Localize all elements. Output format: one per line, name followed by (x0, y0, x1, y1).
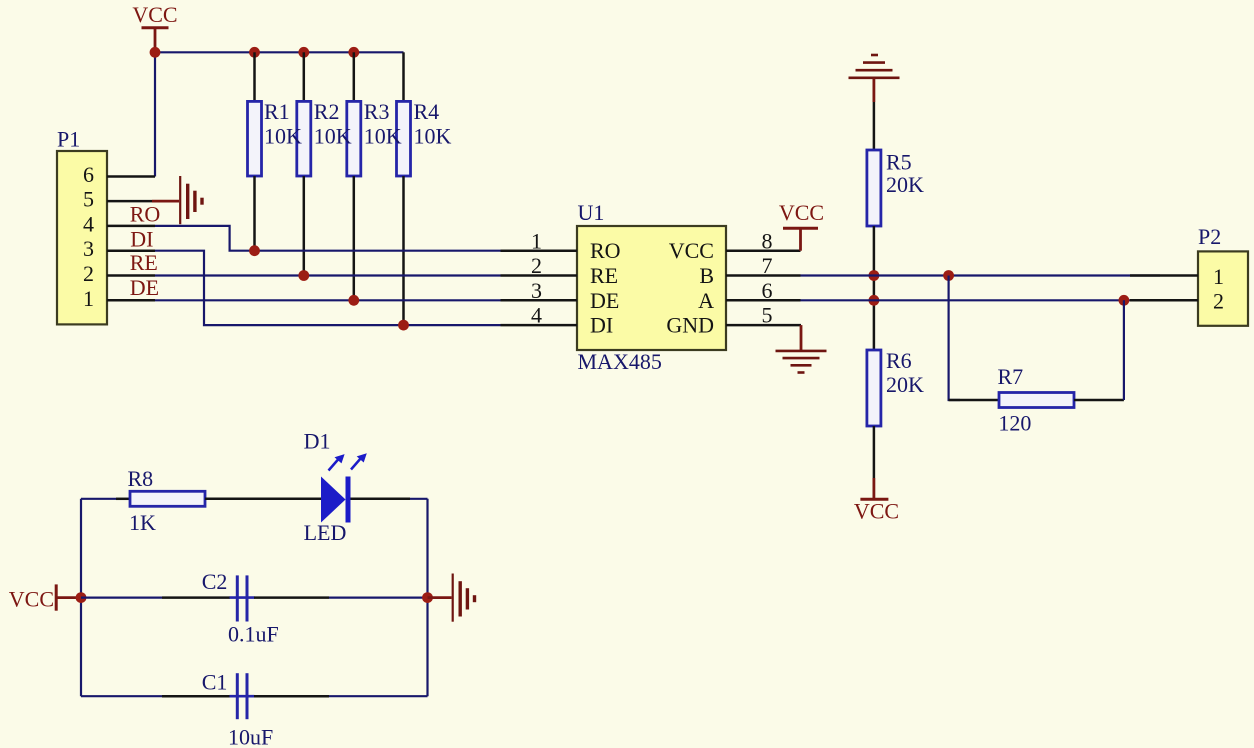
wire earth to R5 (873, 102, 876, 150)
wire RO: P1 pin4 to U1 pin1 (155, 226, 501, 251)
junction RO at R1 (249, 245, 260, 256)
wire C1 pin right (254, 695, 329, 698)
resistor R4 (397, 52, 411, 325)
wire C2 pin left (162, 596, 230, 599)
U1 pin 2 RE (501, 253, 619, 288)
junction DE at R3 (348, 295, 359, 306)
U1 pin 8 VCC (669, 228, 801, 263)
capacitor C1 (202, 670, 274, 748)
wire R5 to B and down to R6 (873, 226, 876, 350)
junction B at R5/R6 divider (869, 270, 880, 281)
junction ground right rail (422, 592, 433, 603)
connector P1 (57, 127, 107, 325)
resistor R7 (998, 364, 1075, 435)
U1 pin 6 A (698, 278, 800, 313)
svg-text:R5: R5 (886, 150, 912, 175)
svg-text:DI: DI (590, 313, 613, 338)
svg-text:P1: P1 (57, 127, 80, 152)
junction B at R7 branch (943, 270, 954, 281)
svg-text:120: 120 (998, 410, 1031, 435)
svg-text:R7: R7 (998, 364, 1024, 389)
wire C1 to right rail (329, 695, 428, 697)
svg-text:B: B (699, 263, 714, 288)
resistor R5 (867, 150, 924, 227)
P1 pin 1 (83, 286, 155, 311)
wire net A: U1 pin6 to P2 pin2 (801, 299, 1161, 301)
ground power port at P1 pin 5 (152, 176, 202, 224)
junction top rail R3 (348, 47, 359, 58)
svg-text:20K: 20K (886, 372, 924, 397)
svg-text:RO: RO (590, 238, 621, 263)
junction A at R7 branch (1119, 295, 1130, 306)
wire C1 pin left (162, 695, 230, 698)
wire R6 to VCC flag (873, 426, 876, 478)
svg-text:VCC: VCC (132, 2, 177, 27)
P1 pin 2 (83, 261, 155, 286)
wire DE: P1 pin1 to U1 pin3 (155, 299, 501, 301)
wire LED to right rail (351, 498, 411, 501)
svg-text:R4: R4 (414, 99, 440, 124)
svg-text:DE: DE (130, 275, 159, 300)
wire LED black to navy joint (410, 498, 428, 500)
power flag VCC top-left (132, 2, 177, 52)
ground earth above R5 (849, 55, 900, 102)
power flag VCC below R6 (854, 478, 899, 524)
svg-text:R6: R6 (886, 348, 912, 373)
ground earth at U1 pin 5 (776, 325, 827, 372)
svg-text:R1: R1 (264, 99, 290, 124)
P1 pin 6 (83, 162, 155, 187)
svg-text:VCC: VCC (779, 200, 824, 225)
diode D1 LED (304, 428, 367, 544)
svg-text:RE: RE (590, 263, 618, 288)
wire net B: U1 pin7 to P2 pin1 (801, 274, 1161, 276)
svg-text:0.1uF: 0.1uF (228, 621, 279, 646)
svg-text:R3: R3 (364, 99, 390, 124)
svg-text:10K: 10K (364, 124, 402, 149)
power flag VCC at U1 pin 8 (779, 200, 824, 251)
junction top rail R2 (298, 47, 309, 58)
IC U1 MAX485 body (577, 200, 726, 374)
wire to R7 left (949, 399, 999, 402)
U1 pin 3 DE (501, 278, 620, 313)
capacitor C2 (202, 569, 279, 647)
svg-text:1: 1 (83, 286, 94, 311)
resistor R6 (867, 348, 924, 426)
P1 pin 4 (83, 211, 155, 236)
svg-text:C1: C1 (202, 670, 228, 695)
junction top rail R1 (249, 47, 260, 58)
junction at VCC flag (150, 47, 161, 58)
svg-text:DE: DE (590, 288, 619, 313)
svg-text:VCC: VCC (669, 238, 714, 263)
svg-text:20K: 20K (886, 172, 924, 197)
svg-text:LED: LED (304, 520, 347, 545)
label R3 10K (364, 99, 402, 149)
wire R7 right up to net A (1074, 399, 1124, 402)
wire left rail bottom block (80, 499, 82, 696)
resistor R8 (128, 466, 206, 535)
P2 pin 1 (1130, 264, 1224, 289)
junction RE at R2 (298, 270, 309, 281)
svg-text:R8: R8 (128, 466, 154, 491)
svg-text:3: 3 (83, 236, 94, 261)
connector P2 (1198, 224, 1248, 326)
wire R8 pin left (116, 498, 130, 501)
svg-text:R2: R2 (314, 99, 340, 124)
wire VCC top rail (155, 51, 404, 53)
svg-text:RO: RO (130, 202, 161, 227)
resistor R2 (297, 52, 311, 275)
svg-text:10K: 10K (264, 124, 302, 149)
U1 pin 5 GND (666, 303, 801, 338)
svg-text:10K: 10K (314, 124, 352, 149)
wire right rail bottom block (426, 499, 428, 696)
U1 pin 1 RO (501, 228, 621, 263)
svg-text:DI: DI (130, 227, 153, 252)
svg-text:10uF: 10uF (228, 724, 273, 748)
label R2 10K (314, 99, 352, 149)
wire VCC to P1 pin6 (154, 52, 156, 176)
P1 pin 5 (83, 187, 152, 212)
svg-text:RE: RE (130, 250, 158, 275)
svg-text:U1: U1 (578, 200, 605, 225)
junction A at R5/R6 divider (869, 295, 880, 306)
wire C2 to right rail (329, 596, 428, 598)
svg-text:5: 5 (83, 187, 94, 212)
junction DI at R4 (398, 320, 409, 331)
junction VCC left rail (76, 592, 87, 603)
resistor R1 (248, 52, 262, 250)
wire C2 pin right (254, 596, 329, 599)
label R4 10K (414, 99, 452, 149)
label R1 10K (264, 99, 302, 149)
svg-text:C2: C2 (202, 569, 228, 594)
wire B down to R7 (949, 276, 960, 401)
wire VCC row to C2 (81, 596, 162, 598)
wire DI: P1 pin3 to U1 pin4 (155, 251, 501, 325)
svg-text:D1: D1 (304, 428, 331, 453)
svg-text:1: 1 (1213, 264, 1224, 289)
P1 pin 3 (83, 236, 155, 261)
svg-text:4: 4 (83, 211, 94, 236)
wire bottom row to C1 (81, 695, 162, 697)
wire top row to R8 (81, 498, 116, 500)
svg-text:P2: P2 (1198, 224, 1221, 249)
svg-text:GND: GND (666, 313, 714, 338)
svg-text:2: 2 (1213, 289, 1224, 314)
svg-text:10K: 10K (414, 124, 452, 149)
resistor R3 (347, 52, 361, 300)
wire R7 vertical to A (1123, 300, 1125, 400)
svg-text:2: 2 (83, 261, 94, 286)
P2 pin 2 (1130, 289, 1224, 314)
svg-text:MAX485: MAX485 (578, 349, 662, 374)
svg-text:1K: 1K (129, 510, 156, 535)
svg-text:A: A (698, 288, 714, 313)
U1 pin 4 DI (501, 303, 614, 338)
ground power port bottom-right (428, 574, 475, 622)
wire R8 to LED D1 (205, 498, 321, 501)
svg-text:6: 6 (83, 162, 94, 187)
U1 pin 7 B (699, 253, 800, 288)
wire RE: P1 pin2 to U1 pin2 (155, 274, 501, 276)
svg-text:VCC: VCC (854, 499, 899, 524)
power flag VCC bottom-left (9, 584, 76, 611)
svg-text:VCC: VCC (9, 586, 54, 611)
